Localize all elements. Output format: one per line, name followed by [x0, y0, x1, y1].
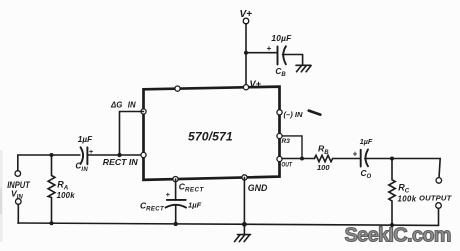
wire dG IN to RECT IN junction	[120, 112, 144, 156]
junction RECT IN / dG	[117, 153, 121, 157]
svg-text:1µF: 1µF	[360, 137, 373, 146]
capacitor CO 1uF	[360, 150, 362, 167]
capacitor CB 10uF	[277, 47, 279, 65]
junction GND / rail	[242, 222, 247, 227]
junction CRECT / rail	[174, 222, 178, 226]
junction RA top	[50, 153, 54, 157]
node V+ terminal circle	[243, 18, 249, 24]
scan smudge left edge	[0, 150, 3, 242]
wire CRECT capacitor to rail	[175, 205, 177, 224]
svg-text:+: +	[267, 44, 272, 53]
stroke mark after (-) IN	[309, 111, 321, 115]
svg-text:100k: 100k	[57, 191, 76, 200]
junction R3 / OUT wire	[300, 157, 304, 161]
wire V+ terminal to V+ pin	[245, 24, 247, 86]
svg-text:1µF: 1µF	[78, 135, 93, 144]
pin RECT IN on IC left edge	[141, 152, 146, 157]
wire OUTPUT bottom to rail	[438, 208, 440, 225]
resistor RB 100	[314, 155, 332, 161]
svg-text:OUTPUT: OUTPUT	[419, 193, 453, 202]
wire CRECT pin to capacitor	[175, 179, 177, 200]
pin dG IN on IC left edge	[141, 109, 146, 114]
pin (unused) on IC top edge	[175, 86, 180, 91]
node OUTPUT bottom terminal	[436, 203, 442, 209]
svg-text:100: 100	[317, 163, 330, 172]
capacitor CRECT 1uF	[167, 199, 186, 201]
chassis ground (CB)	[296, 64, 311, 66]
pin OUT on IC right edge	[277, 156, 282, 161]
wire INPUT top to CIN	[18, 155, 80, 171]
wire OUT to RB	[282, 158, 314, 160]
pin V+ on IC top edge	[243, 85, 248, 90]
resistor RC 100k	[389, 159, 395, 226]
svg-text:+: +	[353, 150, 358, 159]
svg-text:R3: R3	[282, 138, 291, 145]
junction RA / rail	[49, 221, 53, 225]
svg-text:V+: V+	[250, 79, 262, 89]
wire CIN to RECT IN pin	[87, 154, 141, 156]
pin R3 on IC right edge	[277, 133, 282, 138]
svg-text:GND: GND	[248, 183, 268, 193]
pin GND on IC bottom edge	[242, 175, 247, 180]
svg-text:10µF: 10µF	[271, 33, 292, 43]
svg-text:1µF: 1µF	[188, 201, 202, 210]
junction RC / rail	[390, 223, 394, 227]
svg-text:100k: 100k	[398, 195, 417, 204]
wire RB to CO	[333, 158, 360, 160]
svg-text:OUT: OUT	[281, 162, 292, 169]
node INPUT terminals	[15, 171, 21, 177]
resistor RA 100k	[48, 155, 55, 223]
pin CRECT on IC bottom edge	[173, 177, 178, 182]
capacitor CIN 1uF	[81, 147, 84, 164]
svg-text:RECT IN: RECT IN	[103, 158, 139, 167]
IC U1 570/571 main box	[144, 87, 280, 180]
resistor R3 box	[280, 136, 303, 159]
node OUTPUT top terminal	[436, 178, 442, 184]
wire GND pin to rail	[243, 177, 245, 224]
svg-text:SeekIC.com: SeekIC.com	[345, 225, 451, 247]
wire rail to chassis ground	[243, 224, 245, 234]
svg-text:(–) IN: (–) IN	[284, 110, 304, 119]
wire CB to chassis ground	[283, 55, 303, 66]
wire junction to CB	[246, 52, 277, 54]
wire CO to output	[365, 159, 440, 178]
junction V+ / CB	[244, 51, 248, 55]
pin (-) IN on IC right edge	[277, 110, 282, 115]
svg-text:ΔG: ΔG	[110, 101, 122, 110]
svg-text:+: +	[166, 190, 171, 199]
wire INPUT bottom to rail	[17, 204, 19, 223]
svg-text:IN: IN	[128, 101, 136, 110]
wire ground rail	[18, 223, 439, 225]
junction CO / RC	[390, 157, 394, 161]
chassis ground (bottom)	[238, 234, 251, 236]
svg-text:570/571: 570/571	[188, 129, 233, 143]
